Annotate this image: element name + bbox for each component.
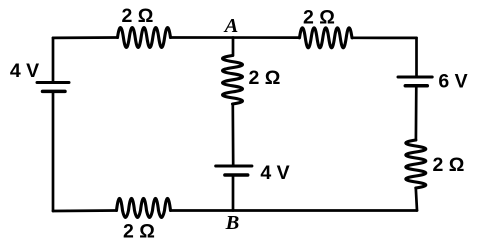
- node A junction: [232, 38, 235, 56]
- battery B3 4V long plate: [216, 165, 252, 168]
- battery B1 4V short plate: [43, 90, 66, 94]
- svg-text:4 V: 4 V: [10, 60, 39, 82]
- wire top-middle segment through node A: [171, 36, 300, 39]
- wire right upper: [415, 38, 418, 77]
- svg-text:6 V: 6 V: [438, 71, 467, 93]
- wire left lower: [52, 91, 55, 211]
- wire middle between R5 and B3: [231, 104, 234, 166]
- resistor R3 right vertical zigzag: [406, 140, 426, 188]
- resistor R1 top-left zigzag: [118, 28, 171, 48]
- svg-text:2 Ω: 2 Ω: [303, 7, 335, 29]
- battery B1 4V long plate: [37, 81, 69, 84]
- svg-text:4 V: 4 V: [260, 162, 289, 184]
- svg-text:A: A: [223, 15, 239, 37]
- wire bottom-left segment: [53, 209, 117, 212]
- wire top-right segment: [352, 36, 417, 39]
- wire right lower: [416, 188, 417, 211]
- wire middle lower to node B: [232, 175, 235, 211]
- wire bottom-middle through node B: [171, 209, 418, 212]
- svg-text:B: B: [225, 212, 240, 234]
- battery B3 4V short plate: [225, 173, 248, 177]
- resistor R2 top-right zigzag: [300, 28, 353, 48]
- battery B2 6V short plate: [405, 84, 427, 88]
- battery B2 6V long plate: [398, 76, 432, 79]
- svg-text:2 Ω: 2 Ω: [122, 5, 154, 27]
- svg-text:2 Ω: 2 Ω: [123, 221, 155, 243]
- wire top-left segment: [53, 36, 118, 39]
- resistor R4 bottom zigzag: [117, 198, 171, 217]
- resistor R5 middle vertical zigzag: [223, 56, 243, 105]
- wire left upper: [52, 38, 55, 83]
- svg-text:2 Ω: 2 Ω: [432, 154, 464, 176]
- wire right between B2 and R3: [415, 86, 418, 140]
- svg-text:2 Ω: 2 Ω: [249, 67, 281, 89]
